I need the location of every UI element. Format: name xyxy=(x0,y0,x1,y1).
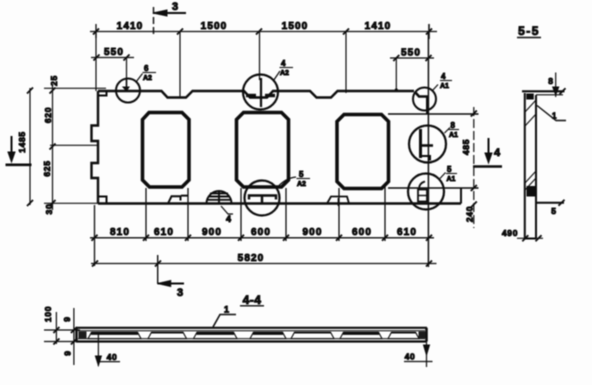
svg-text:4-4: 4-4 xyxy=(243,293,262,307)
svg-text:1500: 1500 xyxy=(282,21,309,32)
svg-text:4: 4 xyxy=(494,147,501,159)
svg-text:600: 600 xyxy=(352,227,372,238)
bottom plate in 5-5 xyxy=(527,186,537,197)
svg-text:25: 25 xyxy=(49,75,59,86)
svg-text:620: 620 xyxy=(43,107,53,123)
svg-text:4: 4 xyxy=(226,214,231,224)
svg-text:А1: А1 xyxy=(449,132,458,139)
svg-text:9: 9 xyxy=(62,316,72,321)
section mark 3 bottom xyxy=(157,255,159,284)
dim 550 left xyxy=(91,55,134,87)
panel top edge with notches xyxy=(98,91,414,98)
svg-text:5: 5 xyxy=(551,206,556,216)
extension left edge to top dim xyxy=(95,32,97,92)
callout circle 5/A2 bottom-center xyxy=(245,181,280,216)
svg-text:А2: А2 xyxy=(297,181,306,188)
left edge profile with keyway notches xyxy=(92,91,99,204)
top-left corner step xyxy=(98,91,107,96)
svg-text:550: 550 xyxy=(401,48,421,59)
weld plate tab 2 on bottom edge xyxy=(327,197,349,207)
flange solid blob xyxy=(526,94,534,100)
right portion top line y114 xyxy=(388,113,479,115)
svg-text:625: 625 xyxy=(42,160,52,176)
section mark 4 right xyxy=(473,165,502,168)
extension line top tick4 xyxy=(345,32,347,94)
svg-text:А1: А1 xyxy=(447,176,456,183)
overall dim 5820 xyxy=(91,261,437,267)
extension line top tick2 xyxy=(179,32,181,99)
bottom chain dimension line xyxy=(90,235,434,241)
right portion bottom line y188 xyxy=(388,187,479,189)
svg-text:А2: А2 xyxy=(280,70,289,77)
bottom flange line xyxy=(536,202,564,204)
callout circle 5/A1 bottom-right xyxy=(408,174,444,210)
dim 40 right xyxy=(426,342,428,368)
callout circle 8/A1 right-middle xyxy=(409,126,446,163)
panel bottom edge xyxy=(98,202,461,204)
opening 3 xyxy=(337,115,389,189)
svg-text:1: 1 xyxy=(224,305,229,315)
svg-text:600: 600 xyxy=(251,227,271,238)
svg-text:1410: 1410 xyxy=(365,21,392,32)
svg-text:4: 4 xyxy=(441,72,446,81)
top small dim 8 xyxy=(555,73,557,98)
svg-text:5: 5 xyxy=(447,165,452,174)
svg-text:А1: А1 xyxy=(440,83,449,90)
callout circle 4/A1 top-right corner xyxy=(413,88,436,111)
svg-text:3: 3 xyxy=(172,1,178,13)
dim 40 left xyxy=(97,334,99,366)
svg-text:30: 30 xyxy=(44,204,54,215)
svg-text:900: 900 xyxy=(202,227,222,238)
svg-text:5-5: 5-5 xyxy=(518,24,540,38)
top flange tick xyxy=(560,88,566,94)
leader 1 on section 4-4 xyxy=(213,315,236,328)
svg-text:4: 4 xyxy=(281,59,286,68)
section 4-4 slab body xyxy=(76,328,427,342)
hollow core voids xyxy=(88,332,141,338)
svg-text:1485: 1485 xyxy=(17,131,27,153)
callout circle 4/A2 top-center xyxy=(243,75,278,110)
right dimension line 485 xyxy=(471,107,477,228)
left chain dimension line xyxy=(50,84,56,210)
svg-text:40: 40 xyxy=(107,352,118,362)
left extension lines xyxy=(44,87,106,89)
leader to label 4 xyxy=(221,206,233,214)
svg-text:240: 240 xyxy=(465,206,475,222)
svg-text:100: 100 xyxy=(43,306,53,322)
svg-text:1410: 1410 xyxy=(117,21,144,32)
section 4-4 left dims xyxy=(44,308,80,365)
svg-text:6: 6 xyxy=(144,64,149,73)
svg-text:900: 900 xyxy=(303,227,323,238)
callout circle 6/A2 top-left xyxy=(116,79,140,103)
svg-text:610: 610 xyxy=(397,227,417,238)
svg-text:5820: 5820 xyxy=(238,253,265,264)
top dimension line xyxy=(90,24,437,39)
svg-text:8: 8 xyxy=(548,76,553,86)
section mark 3 top xyxy=(153,7,186,35)
bottom-left corner step xyxy=(98,197,107,204)
weld plate tab 1 on bottom edge xyxy=(168,196,188,204)
vertical axis line through right callout circles xyxy=(427,32,429,268)
svg-text:8: 8 xyxy=(451,121,456,130)
extension line top tick3 xyxy=(259,32,261,81)
svg-text:610: 610 xyxy=(154,227,174,238)
svg-text:5: 5 xyxy=(299,170,304,179)
svg-text:40: 40 xyxy=(405,352,416,362)
dim 550 right xyxy=(390,55,434,92)
half-dome detail with hatch xyxy=(207,191,232,204)
hatching xyxy=(525,100,536,190)
svg-text:1: 1 xyxy=(552,112,557,121)
svg-text:810: 810 xyxy=(110,227,130,238)
bottom extension lines xyxy=(95,186,386,266)
section 5-5 rib xyxy=(522,91,565,239)
svg-text:9: 9 xyxy=(63,350,73,355)
section mark 4 left xyxy=(6,164,32,167)
opening 2 xyxy=(237,113,289,188)
svg-text:485: 485 xyxy=(461,139,471,155)
opening 1 xyxy=(143,113,190,188)
svg-text:3: 3 xyxy=(177,287,183,299)
svg-text:490: 490 xyxy=(502,228,518,238)
svg-text:550: 550 xyxy=(104,47,124,58)
bottom dim 490 xyxy=(517,235,543,241)
left overall vertical dim line xyxy=(27,88,33,207)
top-right corner step detail xyxy=(415,92,427,114)
svg-text:1500: 1500 xyxy=(201,21,228,32)
svg-text:А2: А2 xyxy=(143,75,152,82)
leader 1 in 5-5 xyxy=(537,106,566,121)
bottom-right corner step xyxy=(460,188,462,204)
